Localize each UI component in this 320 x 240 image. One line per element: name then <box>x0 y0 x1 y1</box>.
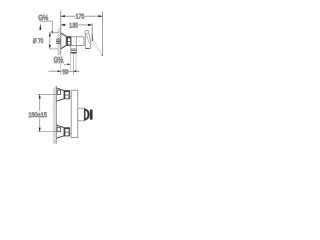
wall line top figure <box>60 11 62 54</box>
wall extension line lower <box>60 63 62 76</box>
svg-text:150±15: 150±15 <box>28 112 47 119</box>
svg-text:G½: G½ <box>38 14 48 22</box>
valve body side view <box>71 37 84 46</box>
lever tip dot <box>102 55 104 57</box>
escutcheon cone side view <box>61 33 66 49</box>
wall extension line below <box>60 54 62 58</box>
handle knob collar <box>84 108 85 120</box>
svg-text:59: 59 <box>63 69 69 76</box>
mixer body front view <box>71 90 78 137</box>
outlet right edge extension <box>75 53 77 69</box>
svg-text:175: 175 <box>76 14 85 21</box>
dimension diameter 70 <box>49 32 58 49</box>
bottom connection neck <box>70 130 72 134</box>
handle edge dark segment <box>91 35 93 41</box>
top connection escutcheon <box>56 88 64 101</box>
dimension 59 <box>49 70 80 72</box>
lever swing dashed <box>91 39 102 55</box>
bottom connection union nut <box>64 128 70 137</box>
right extension line 175 <box>102 12 104 56</box>
middle extension line 135 <box>91 23 93 41</box>
top connection union nut <box>64 90 70 99</box>
outlet centre extension line <box>72 53 74 74</box>
dimension 175 <box>61 15 103 17</box>
svg-text:Ø 70: Ø 70 <box>33 38 44 45</box>
wall hatching top figure <box>57 27 61 55</box>
top connection neck <box>70 93 72 97</box>
svg-text:135: 135 <box>69 22 78 29</box>
lever handle solid <box>84 30 91 49</box>
wall hatching bottom figure <box>53 86 57 144</box>
handle knob D ring <box>86 109 90 120</box>
shower outlet below body <box>71 46 77 54</box>
handle knob base <box>78 108 84 121</box>
dimension 150 pm 15 <box>38 94 57 131</box>
bottom connection escutcheon <box>56 125 64 138</box>
outlet left edge extension <box>70 53 72 69</box>
wall line bottom figure <box>55 86 57 144</box>
label G1/2 top <box>38 14 53 34</box>
union nut side view <box>67 37 72 46</box>
handle knob end cap <box>90 109 93 119</box>
label G1/2 bottom outlet <box>53 56 70 65</box>
dimension 135 <box>61 24 92 26</box>
inlet nipple G1/2 behind wall <box>57 39 61 44</box>
